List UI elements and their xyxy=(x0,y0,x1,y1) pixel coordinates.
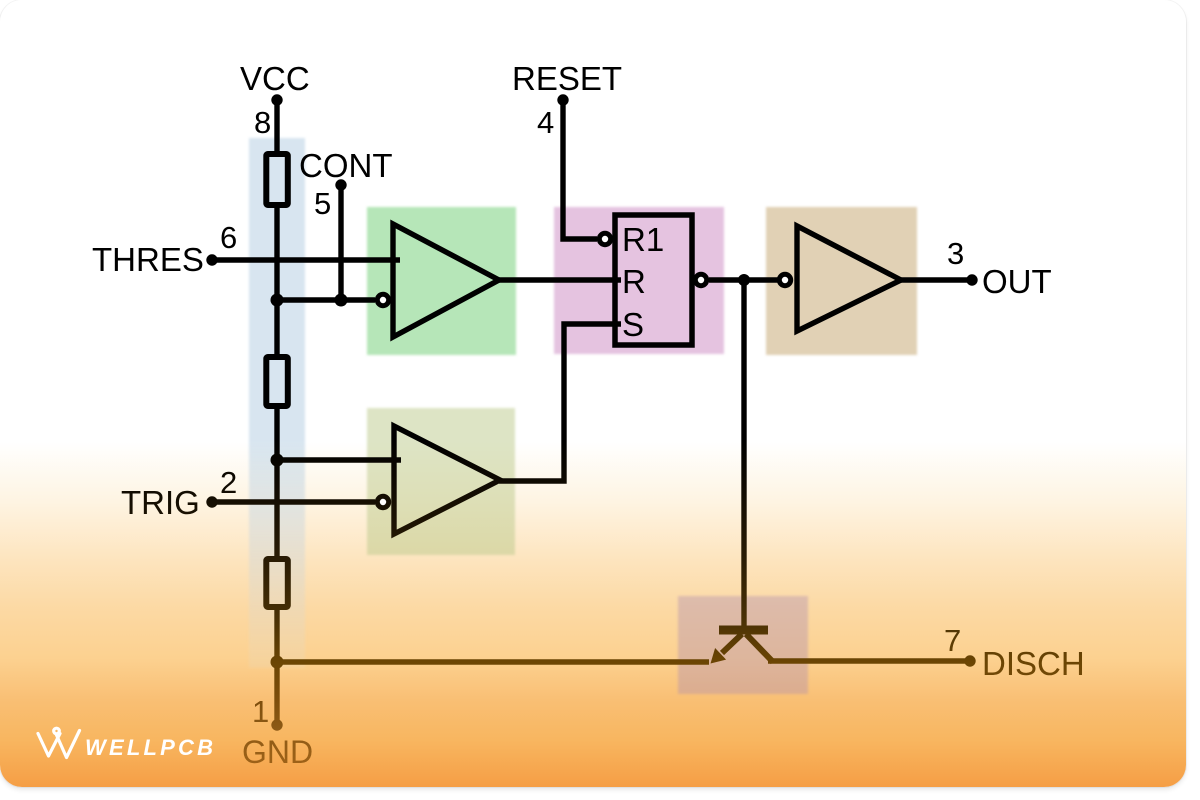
junction GND net xyxy=(271,656,284,669)
wire Ra to node A xyxy=(274,207,279,354)
buffer U4 xyxy=(797,226,901,331)
svg-text:5: 5 xyxy=(314,186,331,221)
pin dot TRIG xyxy=(206,496,217,507)
junction node B xyxy=(271,454,284,467)
pin dot GND xyxy=(271,719,282,730)
wire U1 output to latch R input xyxy=(499,277,621,282)
latch output bubble xyxy=(695,274,706,285)
svg-text:4: 4 xyxy=(537,105,554,140)
latch reset bubble xyxy=(599,233,610,244)
svg-text:RESET: RESET xyxy=(512,60,622,97)
wire RESET to latch xyxy=(563,100,597,239)
wire Rc to GND xyxy=(274,610,279,725)
svg-text:1: 1 xyxy=(252,694,269,729)
transistor Q1 collector lead xyxy=(746,634,773,662)
wire Rb to resistor Rc xyxy=(274,409,279,556)
svg-text:S: S xyxy=(622,306,644,343)
wire latch output to buffer U4 xyxy=(709,277,778,282)
svg-text:3: 3 xyxy=(947,236,964,271)
voltage divider highlight band xyxy=(249,138,305,668)
svg-text:6: 6 xyxy=(220,220,237,255)
wire U4 output to OUT xyxy=(901,277,972,282)
svg-text:TRIG: TRIG xyxy=(121,484,200,521)
svg-text:R: R xyxy=(622,263,646,300)
inverting input bubble U2 xyxy=(377,496,388,507)
wire U2 output to latch S input xyxy=(499,324,621,481)
transistor Q1 emitter lead xyxy=(722,634,742,653)
transistor Q1 base bar xyxy=(719,626,768,635)
resistor Rb xyxy=(266,357,288,406)
junction node A xyxy=(271,294,284,307)
pin dot VCC xyxy=(271,94,282,105)
wire Q1 collector to DISCH xyxy=(768,658,970,663)
svg-text:8: 8 xyxy=(254,105,271,140)
svg-text:GND: GND xyxy=(242,734,313,770)
buffer U4 highlight xyxy=(766,207,917,355)
pin dot DISCH xyxy=(964,655,975,666)
wire TRIG to U2 inverting input xyxy=(212,499,375,504)
comparator U2 xyxy=(394,426,500,534)
pin dot THRES xyxy=(206,254,217,265)
transistor Q1 emitter arrowhead xyxy=(711,648,727,664)
latch U3 box xyxy=(615,215,692,345)
wire GND net to Q1 emitter xyxy=(277,659,709,664)
wire VCC to resistor R1 xyxy=(274,100,279,153)
wire CONT xyxy=(338,185,343,300)
transistor Q1 highlight xyxy=(678,596,808,694)
junction latch output node xyxy=(738,274,750,286)
comparator U2 highlight xyxy=(367,408,515,555)
wire node B to comparator U2 xyxy=(277,457,401,462)
svg-text:THRES: THRES xyxy=(92,241,204,278)
inverting input bubble U1 xyxy=(377,294,388,305)
comparator U1 highlight xyxy=(367,207,516,355)
buffer input bubble xyxy=(779,274,790,285)
svg-text:7: 7 xyxy=(944,623,961,658)
svg-text:R1: R1 xyxy=(622,221,664,258)
svg-text:OUT: OUT xyxy=(982,263,1052,300)
svg-text:WELLPCB: WELLPCB xyxy=(85,735,216,760)
junction CONT node xyxy=(335,294,348,307)
wire THRES to comparator U1 xyxy=(212,257,400,262)
logo mark W xyxy=(38,728,80,757)
comparator U1 xyxy=(393,224,499,337)
pin dot RESET xyxy=(557,94,568,105)
latch U3 highlight xyxy=(554,207,724,354)
resistor Ra xyxy=(266,154,288,205)
resistor Rc xyxy=(266,559,288,607)
wire node A to U1 inverting input xyxy=(277,297,375,302)
svg-text:VCC: VCC xyxy=(240,60,310,97)
pin dot OUT xyxy=(966,274,977,285)
wire latch output node to transistor Q1 base xyxy=(741,280,746,630)
pin dot CONT xyxy=(335,179,346,190)
svg-text:CONT: CONT xyxy=(299,147,393,184)
svg-text:2: 2 xyxy=(220,465,237,500)
svg-text:DISCH: DISCH xyxy=(982,645,1085,682)
